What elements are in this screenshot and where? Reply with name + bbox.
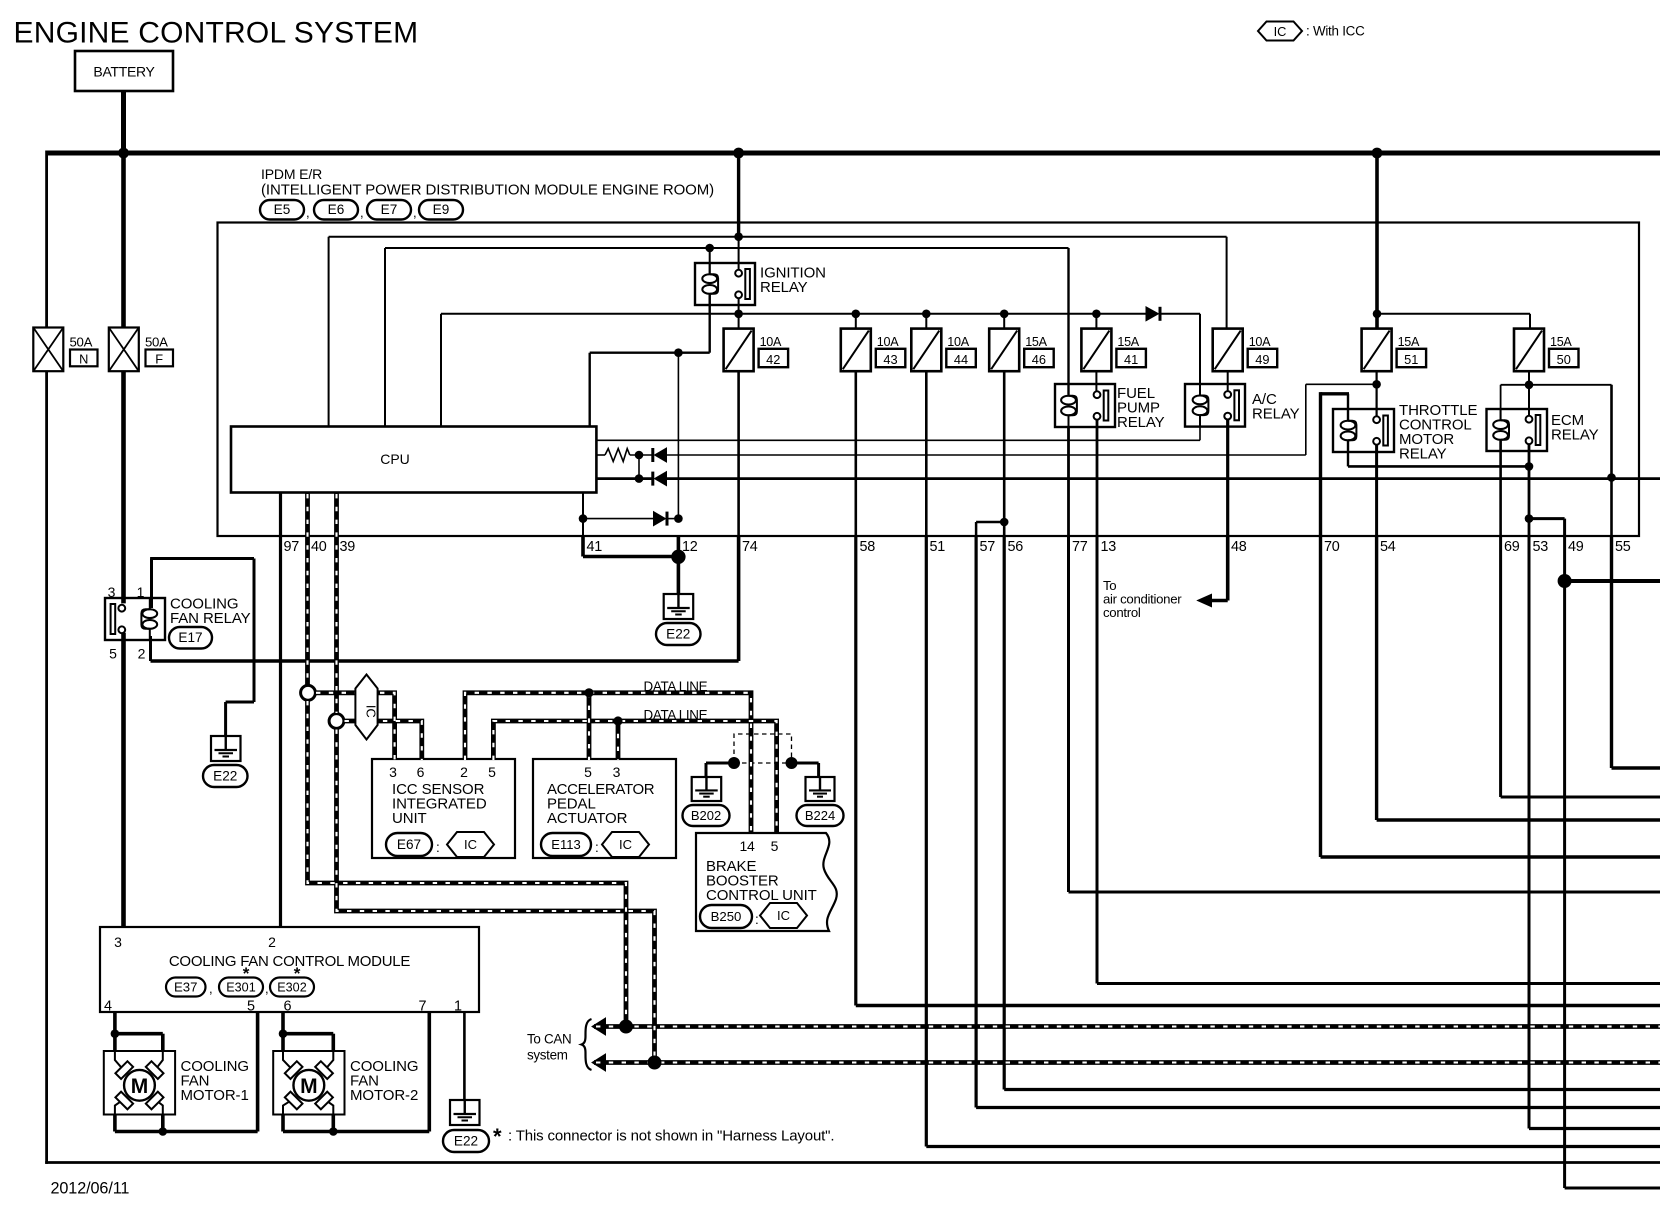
cooling fan motor-1: [104, 1051, 175, 1115]
junction: motor-2 top: [279, 1029, 288, 1038]
wire: throttle contact to IPDM pin 54: [1375, 444, 1378, 536]
IPDM E/R box: [218, 223, 1640, 537]
data line 1 segment A (to ICC sensor pin 3): [308, 693, 395, 760]
arrow: to air conditioner control: [1198, 594, 1212, 606]
fusible link F (50A) box: [109, 328, 139, 372]
data line 1 segment B (ICC pin 2 to brake booster pin 14): [465, 693, 751, 832]
wire: IPDM pin 13 down: [1096, 536, 1099, 984]
junction: y237 line at x738: [734, 232, 743, 241]
wire: jog to air conditioner arrow: [1210, 599, 1228, 603]
wire: drop to fuse 49 top: [1226, 237, 1228, 329]
wire: IPDM pin 77 down: [1067, 536, 1070, 892]
svg-text:IC: IC: [777, 908, 790, 923]
junction: motor-1 top: [111, 1029, 120, 1038]
ICC sensor integrated unit box: [372, 759, 515, 858]
svg-text:48: 48: [1231, 539, 1247, 555]
wire: pin 1 loop right vertical x254: [253, 559, 256, 703]
svg-text:B224: B224: [805, 808, 835, 823]
svg-text:50A: 50A: [70, 335, 93, 350]
svg-text:10A: 10A: [877, 335, 899, 349]
svg-text:15A: 15A: [1117, 335, 1139, 349]
svg-text:IC: IC: [1274, 24, 1287, 39]
wire: pin 57 stub: [975, 522, 978, 536]
svg-text:B250: B250: [711, 909, 742, 924]
big junction: pin 49 tap: [1558, 574, 1572, 588]
connector B224 oval: [797, 805, 844, 826]
svg-text:46: 46: [1032, 352, 1046, 367]
wire: bus drop to fuse 51: [1375, 153, 1379, 329]
wire: fuel pump relay contact to IPDM pin 13: [1096, 419, 1099, 536]
svg-text:2: 2: [460, 764, 468, 780]
svg-text:control: control: [1103, 605, 1141, 620]
link F letter box: [146, 350, 174, 367]
wire: pin 55 run y768 to right edge: [1612, 766, 1660, 769]
svg-text:41: 41: [1124, 352, 1138, 367]
wire: pin 49 run y1188 to right edge: [1565, 1187, 1660, 1190]
wire: motor-1 right entry: [161, 1034, 165, 1051]
wire: ECM coil to IPDM pin 69: [1499, 441, 1502, 536]
svg-text:1: 1: [137, 584, 145, 600]
wire: y661 run to cooling fan relay coil (pin 2): [151, 659, 739, 663]
junction: pin 56/57 branch: [1000, 518, 1009, 527]
wire: battery sense line y237 (CPU to fuse 49 feed): [329, 236, 1227, 238]
fusible link N (50A) box: [33, 328, 63, 372]
diode on CPU line C (pointing left): [655, 472, 667, 486]
junction: fuse 41 feed: [1092, 310, 1101, 319]
junction: fuse 51/50 feed: [1373, 310, 1382, 319]
svg-text:10A: 10A: [1249, 335, 1271, 349]
wire: motor-2 right exit: [331, 1115, 335, 1132]
wire: pin 41 stub below IPDM: [581, 536, 585, 557]
connector E67 oval: [386, 833, 432, 856]
wire: pin 1 loop top y558: [150, 557, 254, 560]
junction: CAN line 2 tap: [648, 1056, 662, 1070]
wire: riser x329 to CPU top: [328, 237, 330, 427]
svg-text::: :: [755, 912, 759, 927]
svg-text:,: ,: [265, 981, 269, 996]
arrow: to CAN system line 1: [592, 1018, 606, 1035]
svg-text:(INTELLIGENT POWER DISTRIBUTIO: (INTELLIGENT POWER DISTRIBUTION MODULE E…: [261, 182, 714, 199]
curly brace for CAN lines: [582, 1019, 592, 1070]
wire: left frame vertical (lower, from fusible link N to bottom frame): [45, 371, 48, 1164]
svg-text:To CAN: To CAN: [527, 1032, 571, 1047]
svg-text:13: 13: [1101, 539, 1117, 555]
svg-text:E5: E5: [274, 202, 291, 217]
wire: motor-2 left exit: [281, 1115, 285, 1132]
fuse 51 (15A): [1362, 329, 1427, 372]
wire: pin 70 jog y394: [1321, 392, 1350, 395]
junction: throttle coil return / pin 53: [1525, 462, 1534, 471]
cooling fan relay: [105, 598, 165, 640]
junction: line C: [635, 474, 644, 483]
wire: motor-2 bottom bus y1131: [283, 1130, 429, 1134]
fuse 41 (15A): [1081, 329, 1146, 372]
svg-text:12: 12: [682, 539, 698, 555]
svg-text:43: 43: [883, 352, 897, 367]
svg-text:5: 5: [247, 999, 255, 1015]
link N letter box: [70, 350, 98, 367]
wire: A/C relay contact to IPDM pin 48: [1226, 419, 1229, 536]
junction: line D left: [579, 514, 588, 523]
svg-text:E7: E7: [381, 202, 398, 217]
svg-text:FAN RELAY: FAN RELAY: [170, 610, 251, 627]
junction: line B: [635, 451, 644, 460]
svg-text:E22: E22: [454, 1133, 478, 1148]
svg-text:RELAY: RELAY: [1252, 406, 1300, 423]
ground symbol B224: [806, 777, 835, 801]
svg-text:10A: 10A: [760, 335, 782, 349]
wire: fuse 51 to throttle relay contact: [1375, 329, 1377, 416]
svg-text:15A: 15A: [1025, 335, 1047, 349]
junction: fuse 51 output: [1372, 380, 1381, 389]
data line 1 drop to accelerator pedal pin 5: [587, 693, 592, 760]
wire: feed to fuse 50 y314: [1377, 313, 1530, 315]
brake booster control unit box: [696, 833, 837, 931]
wire: pin 55 riser x1611: [1610, 385, 1613, 536]
junction: bus to fuse 51/50 drop: [1372, 148, 1383, 159]
wire: IPDM pin 55 down: [1610, 536, 1613, 768]
connector B202 oval: [683, 805, 730, 826]
svg-text:39: 39: [340, 539, 356, 555]
wire: cooling fan relay pin 2 stub: [149, 636, 152, 661]
wire: IPDM pin 51 down: [925, 536, 928, 1147]
accelerator pedal actuator box: [533, 759, 676, 858]
wire: motor-2 right entry: [331, 1034, 335, 1051]
svg-text:49: 49: [1255, 352, 1269, 367]
svg-text:57: 57: [980, 539, 996, 555]
wire: IPDM pin 49 down: [1563, 536, 1566, 1188]
wire: cooling fan relay pin 1 riser: [150, 559, 153, 609]
wire: fuse 42 to IPDM pin 74: [737, 371, 740, 536]
svg-text:E67: E67: [397, 837, 421, 852]
svg-text:49: 49: [1568, 539, 1584, 555]
resistor on CPU line B: [605, 449, 630, 462]
ground symbol E22 (cooling fan relay coil): [211, 736, 241, 761]
svg-text:97: 97: [284, 539, 300, 555]
svg-text:,: ,: [360, 205, 364, 220]
wire: bus to y237 junction: [737, 153, 740, 237]
wire: IPDM pin 58 down: [854, 536, 857, 1006]
wire: ECM contact to IPDM pin 53: [1528, 444, 1531, 536]
svg-text::: :: [595, 840, 599, 855]
wire: ECM coil feed jog y385: [1501, 384, 1529, 386]
junction: fuse 43 feed: [852, 310, 861, 319]
throttle control motor relay: [1333, 409, 1394, 452]
wire: diode line D to x678: [669, 518, 679, 520]
svg-text:E9: E9: [433, 202, 450, 217]
wire: IPDM pin 56 down: [1003, 536, 1006, 1090]
IC hexagon (E113): [602, 832, 649, 857]
svg-text:E37: E37: [174, 979, 197, 994]
wire: fuse 50 to ECM relay contact: [1528, 329, 1530, 415]
wire: line B resistor to diode: [630, 454, 652, 456]
svg-text:BATTERY: BATTERY: [93, 64, 155, 80]
junction: shield to ground B224: [786, 757, 798, 769]
wire: IPDM pin 53 down: [1528, 536, 1531, 1129]
wire: branch x678 down to diode node: [677, 353, 679, 519]
wire: feed to fuse 43: [855, 314, 857, 329]
svg-text:40: 40: [311, 539, 327, 555]
diode on line D (pointing right): [654, 512, 666, 526]
connector E113 oval: [541, 833, 591, 856]
arrow: to CAN system line 2: [592, 1054, 606, 1071]
wire: CPU line B y455 to throttle feed riser: [667, 454, 1306, 456]
svg-text:E302: E302: [277, 980, 306, 994]
svg-text:E22: E22: [213, 768, 237, 783]
connector E7 oval: [367, 200, 411, 220]
wire: down to ground E22 (E17 coil): [224, 702, 227, 736]
svg-text:50A: 50A: [145, 335, 168, 350]
wire: CPU line B lead: [596, 454, 605, 456]
svg-text:ACTUATOR: ACTUATOR: [547, 810, 628, 827]
wire: module pin 1 to ground E22: [463, 1012, 466, 1100]
junction: fuse bus at x738: [734, 310, 743, 319]
wire: fuse 49 to A/C relay contact: [1227, 371, 1229, 391]
wire: pin 77 run y892 to right edge: [1069, 891, 1660, 894]
svg-text:2: 2: [268, 934, 276, 950]
wire: motor-1 right exit: [161, 1115, 165, 1132]
svg-text:6: 6: [283, 999, 291, 1015]
svg-text:2: 2: [138, 646, 146, 662]
wire: drop to fuel pump relay coil: [1067, 248, 1069, 395]
wire: riser x385 to CPU top: [384, 248, 386, 427]
svg-text:IC: IC: [464, 837, 477, 852]
wire: A/C relay coil feed drop: [1199, 314, 1201, 395]
connector E17 oval: [169, 627, 212, 649]
svg-text:6: 6: [417, 764, 425, 780]
connector E6 oval: [314, 200, 358, 220]
wire: line B riser x1306: [1305, 384, 1307, 455]
svg-text:15A: 15A: [1550, 335, 1572, 349]
svg-text:56: 56: [1008, 539, 1024, 555]
svg-text:15A: 15A: [1398, 335, 1420, 349]
svg-text:B202: B202: [691, 808, 721, 823]
wire: pin 49 tap y581 to right edge: [1565, 579, 1660, 583]
CAN system line 1 y1026: [594, 1024, 1660, 1029]
data line 2 segment A (to ICC sensor pin 6): [337, 721, 422, 760]
battery box: [75, 51, 173, 91]
svg-text:CONTROL UNIT: CONTROL UNIT: [706, 887, 817, 904]
svg-text:77: 77: [1072, 539, 1088, 555]
wire: drop to B224: [817, 763, 820, 777]
cooling fan motor-2: [273, 1051, 344, 1115]
wire: module pin 7 down: [427, 1012, 431, 1132]
junction: fuse 50 output: [1525, 381, 1534, 390]
svg-text:: This connector is not shown: : This connector is not shown in "Harnes…: [508, 1128, 834, 1145]
fuse 43 (10A): [841, 329, 906, 372]
svg-text:IC: IC: [619, 837, 632, 852]
wire: ignition relay coil return y353: [590, 352, 710, 354]
connector junction circle on pin 40 line: [301, 685, 316, 700]
wire: fuse 44 to IPDM pin 51: [925, 371, 928, 536]
svg-text::: :: [436, 840, 440, 855]
wire: shield to ground B202: [706, 762, 735, 765]
wire: motor-1 bottom bus y1131: [115, 1130, 258, 1134]
junction: ignition coil feed: [705, 244, 714, 253]
svg-text:58: 58: [860, 539, 876, 555]
svg-text:74: 74: [742, 539, 758, 555]
wire: module pin 5 down: [256, 1012, 260, 1132]
wire: fusible link F to cooling fan relay pin 3: [121, 371, 126, 603]
wire: shield to ground B224: [791, 762, 819, 765]
fuse 50 (15A): [1514, 329, 1579, 372]
wire: ignition relay contact to fuse 42: [738, 297, 740, 329]
junction: CAN line 1 tap: [619, 1020, 633, 1034]
svg-text:3: 3: [613, 764, 621, 780]
wire: IPDM pin 70 down: [1319, 536, 1322, 857]
svg-text:,: ,: [209, 981, 213, 996]
ECM relay: [1487, 409, 1548, 451]
wire: ignition relay coil bottom drop: [709, 295, 711, 353]
wire: bottom frame horizontal: [45, 1161, 1660, 1164]
svg-text:14: 14: [740, 838, 755, 854]
wire: CPU pin 97 to cooling fan control module pin 2: [279, 493, 282, 927]
ground symbol E22 (cooling fan module): [450, 1100, 480, 1125]
wire: drop to B202: [705, 763, 708, 777]
fuse 46 (15A): [989, 329, 1053, 372]
svg-text:M: M: [300, 1075, 318, 1098]
svg-text:CPU: CPU: [380, 451, 410, 467]
wire: ignition/fuel coil feed line y248: [385, 247, 1069, 249]
wire: pin 53 run y1128 to right edge: [1529, 1127, 1660, 1130]
wire: battery to bus: [121, 91, 126, 153]
svg-text:E6: E6: [328, 202, 345, 217]
wire: throttle coil top stub: [1347, 394, 1349, 420]
svg-text:IC: IC: [364, 705, 379, 718]
wire: IPDM pin 57 down: [974, 536, 977, 1108]
svg-text:DATA LINE: DATA LINE: [644, 679, 708, 694]
svg-text:54: 54: [1380, 539, 1396, 555]
svg-text:E17: E17: [178, 630, 202, 645]
svg-text:RELAY: RELAY: [1551, 427, 1599, 444]
svg-text:F: F: [155, 352, 163, 367]
connector E302 oval: [270, 978, 314, 997]
svg-text:*: *: [294, 964, 301, 983]
wire: throttle coil bottom stub: [1347, 441, 1349, 466]
wire: throttle coil return y466 to ECM node: [1348, 465, 1529, 468]
junction: line C / pin 55 riser: [1607, 473, 1616, 482]
svg-text:,: ,: [306, 205, 310, 220]
svg-text:55: 55: [1615, 539, 1631, 555]
wire: line B jog to fuse 51 output node: [1306, 383, 1377, 385]
wire: CPU line C lead: [596, 477, 651, 480]
CPU box: [231, 427, 596, 493]
data line 2 segment B (ICC pin 5 to brake booster pin 5): [493, 721, 776, 832]
svg-text:E301: E301: [226, 980, 255, 994]
connector E301 oval: [219, 978, 263, 997]
svg-text:7: 7: [418, 999, 426, 1015]
ground symbol B202: [692, 777, 722, 801]
connector E22 oval (module ground): [443, 1130, 489, 1152]
svg-text:53: 53: [1533, 539, 1549, 555]
wire: ignition relay coil top to y248 line: [709, 248, 711, 273]
wire: pin 58 run y1005 to right edge: [856, 1004, 1660, 1007]
svg-text:,: ,: [413, 205, 417, 220]
wire: IPDM pin 48 down to A/C control arrow: [1226, 536, 1230, 601]
svg-text:69: 69: [1504, 539, 1520, 555]
svg-text:COOLING FAN CONTROL MODULE: COOLING FAN CONTROL MODULE: [169, 953, 411, 970]
IC hexagon (B250): [760, 903, 807, 928]
svg-text:51: 51: [1404, 352, 1418, 367]
wire: throttle relay coil feed riser (pin 70): [1319, 392, 1322, 536]
wire: y237 junction to ignition relay contact: [738, 237, 740, 270]
svg-text:system: system: [527, 1048, 568, 1063]
legend IC hexagon : With ICC: [1258, 22, 1302, 41]
fuse 42 (10A): [724, 329, 789, 372]
wire: riser x590 to CPU top: [589, 353, 591, 427]
wire: pin 49 stub: [1563, 519, 1566, 536]
connector B250 oval: [700, 905, 752, 928]
svg-text:5: 5: [109, 646, 117, 662]
svg-text:IPDM E/R: IPDM E/R: [261, 166, 322, 182]
wire: motor-1 left exit: [113, 1115, 117, 1132]
wire: A/C relay coil bottom to CPU line A: [1199, 416, 1201, 440]
wire: cooling fan relay pin 5 to cooling fan control module pin 3: [121, 633, 126, 927]
wire: IPDM pin 69 down: [1499, 536, 1502, 797]
data line 2 drop to accelerator pedal pin 3: [616, 721, 621, 760]
svg-text:44: 44: [954, 352, 968, 367]
junction: motor-1 bottom: [159, 1127, 168, 1136]
wire: left frame vertical (upper, to fusible link N): [45, 151, 48, 328]
wire: fuse bus after diode to A/C relay coil drop: [1161, 313, 1200, 315]
junction: line D right: [674, 514, 683, 523]
wire: CPU line A y440 to A/C relay coil: [596, 439, 1200, 441]
connector E22 oval (fan relay ground): [203, 765, 248, 787]
wire: ignition relay output fuse bus y314: [441, 313, 1146, 315]
svg-text:1: 1: [454, 999, 462, 1015]
fusible link F X: [109, 328, 139, 372]
junction: shield to ground B202: [728, 757, 740, 769]
wire: motor-1 top jog y1033: [115, 1032, 163, 1036]
wire: IPDM pin 54 down: [1375, 536, 1378, 820]
wire: pin 57 branch y522: [976, 521, 1004, 524]
wire: battery bus (top horizontal): [47, 151, 1660, 156]
connector E37 oval: [166, 978, 206, 997]
fuel pump relay: [1055, 384, 1115, 427]
svg-text:50: 50: [1557, 352, 1571, 367]
svg-text:51: 51: [930, 539, 946, 555]
diode on CPU line B (pointing left): [655, 448, 667, 462]
wire: pin 70 run y857 to right edge: [1321, 855, 1660, 858]
svg-text:42: 42: [766, 352, 780, 367]
svg-text:*: *: [493, 1124, 502, 1149]
connector E5 oval: [260, 200, 304, 220]
wire: pin 56 run y1089 to right edge: [1004, 1088, 1660, 1091]
svg-text:UNIT: UNIT: [392, 810, 427, 827]
svg-text:70: 70: [1324, 539, 1340, 555]
fusible link N X: [33, 328, 63, 372]
diode on fuse bus (A/C coil feed): [1146, 307, 1159, 321]
big junction: pins 41/12 ground node: [671, 550, 685, 564]
wire: pin 13 run y983 to right edge: [1097, 982, 1660, 985]
wire: fuse 41 to fuel pump relay contact: [1095, 371, 1097, 392]
ground symbol E22 (IPDM pins 41/12): [664, 594, 694, 619]
wire: diode line D: [583, 518, 653, 520]
CAN line from CPU pin 40 (shielded, to CAN system hi): [308, 493, 627, 1027]
wire: link between line B and line C dots: [638, 455, 640, 479]
connector E22 oval (IPDM ground): [656, 623, 701, 645]
wire: pin 57 run y1107 to right edge: [976, 1106, 1660, 1109]
svg-text:4: 4: [104, 999, 112, 1015]
svg-text:MOTOR-1: MOTOR-1: [181, 1087, 249, 1104]
junction: pin 53 / pin 49 jog: [1525, 514, 1534, 523]
wire: pin 12 to ground E22: [677, 536, 681, 594]
svg-text:5: 5: [771, 838, 779, 854]
svg-text:3: 3: [389, 764, 397, 780]
wire: CPU pin 41 drop: [582, 493, 584, 536]
wire: drop to fuse 50 top: [1529, 314, 1531, 329]
svg-text:ENGINE CONTROL SYSTEM: ENGINE CONTROL SYSTEM: [14, 17, 419, 50]
